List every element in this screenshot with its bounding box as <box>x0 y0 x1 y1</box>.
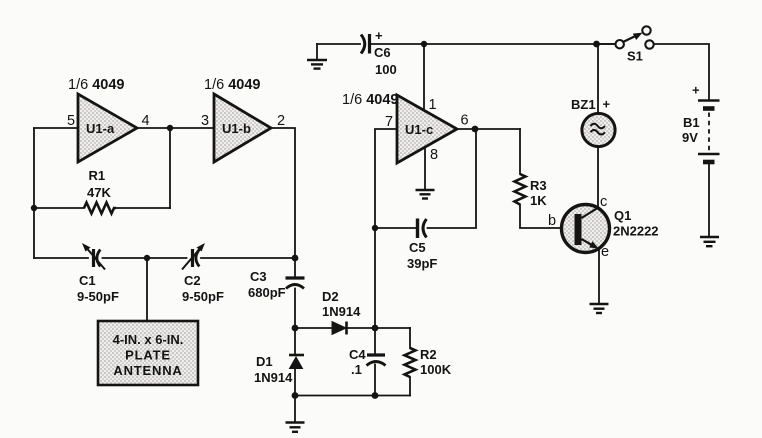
svg-text:C6: C6 <box>374 45 391 60</box>
wire: R2 top lead <box>409 328 411 348</box>
svg-text:1N914: 1N914 <box>254 370 293 385</box>
node: antenna junction <box>144 255 150 261</box>
svg-text:4-IN. x 6-IN.: 4-IN. x 6-IN. <box>113 332 184 347</box>
wire: R1 feedback row <box>34 207 84 209</box>
ground: U1-c pin 8 <box>416 190 435 199</box>
ground: battery negative <box>700 237 719 246</box>
svg-text:1K: 1K <box>530 193 547 208</box>
plate antenna box <box>98 321 198 385</box>
svg-text:39pF: 39pF <box>407 256 437 271</box>
svg-text:C3: C3 <box>250 269 267 284</box>
svg-text:100K: 100K <box>420 362 452 377</box>
resistor R2 <box>405 348 416 377</box>
wire: D1 top lead <box>294 328 296 354</box>
svg-text:U1-c: U1-c <box>405 122 433 137</box>
svg-text:c: c <box>600 194 607 210</box>
wire: U1-a input row <box>34 127 78 129</box>
capacitor C4 <box>367 355 386 366</box>
svg-text:9-50pF: 9-50pF <box>182 289 224 304</box>
svg-text:+: + <box>603 97 611 112</box>
ground: Q1 emitter <box>590 304 609 313</box>
svg-text:1: 1 <box>429 97 437 113</box>
svg-text:100: 100 <box>375 62 397 77</box>
svg-text:2: 2 <box>277 113 285 129</box>
svg-text:B1: B1 <box>683 115 700 130</box>
svg-text:8: 8 <box>430 147 438 163</box>
svg-text:e: e <box>601 244 609 260</box>
svg-text:7: 7 <box>385 114 393 130</box>
ground: top rail left <box>307 60 327 69</box>
svg-text:5: 5 <box>67 113 75 129</box>
svg-text:R3: R3 <box>530 178 547 193</box>
wire: C4 bottom lead <box>374 365 376 396</box>
node: U1-a output junction <box>167 125 173 131</box>
svg-text:3: 3 <box>201 113 209 129</box>
svg-text:Q1: Q1 <box>614 208 631 223</box>
svg-text:C4: C4 <box>349 347 366 362</box>
capacitor C1 (variable) <box>82 243 105 270</box>
wire: top supply rail right of C6 <box>371 43 615 45</box>
capacitor C2 (variable) <box>182 243 205 270</box>
svg-text:+: + <box>692 83 700 98</box>
wire: R3 bottom lead to Q1 base <box>520 205 575 229</box>
wire: top supply rail left of C6 <box>317 43 360 45</box>
wire: C5 row right and up to pin6 <box>428 129 477 228</box>
wire: D1 ground stem <box>294 396 296 423</box>
wire: D2 row <box>295 327 332 329</box>
node: R1 left junction <box>31 205 37 211</box>
wire: C4 top lead <box>374 328 376 354</box>
svg-text:680pF: 680pF <box>248 285 286 300</box>
node: BZ1 rail junction <box>593 41 600 48</box>
node: pin1 rail junction <box>421 41 427 47</box>
svg-text:U1-a: U1-a <box>86 121 115 136</box>
svg-text:D2: D2 <box>322 289 339 304</box>
svg-text:PLATE: PLATE <box>125 348 171 363</box>
diode D1 <box>289 355 304 369</box>
op-amp U1-c inverter triangle <box>397 95 457 163</box>
svg-text:D1: D1 <box>256 354 273 369</box>
wire: U1-c pin1 drop <box>423 44 425 113</box>
svg-text:C1: C1 <box>79 273 96 288</box>
node: C4 bottom junction <box>372 392 379 399</box>
wire: S1 pole lead <box>600 43 616 45</box>
wire: U1-c pin7 lead <box>375 129 397 228</box>
node: pin7/C5 junction <box>372 225 378 231</box>
wire: feedback vertical from output node <box>169 128 171 208</box>
capacitor C3 <box>286 278 305 289</box>
svg-text:1N914: 1N914 <box>322 304 361 319</box>
svg-text:b: b <box>548 213 556 229</box>
capacitor C6 <box>361 34 370 54</box>
svg-text:47K: 47K <box>87 185 111 200</box>
battery B1 <box>698 101 720 163</box>
capacitor C5 <box>418 219 427 239</box>
node: pin6/C5 junction <box>472 126 479 133</box>
wire: bottom row C4/R2 <box>295 395 410 397</box>
node: D2 cathode junction <box>372 325 379 332</box>
wire: U1-c pin8 ground stem <box>424 146 426 189</box>
wire: BZ1 to Q1 collector <box>597 147 599 208</box>
wire: left column <box>33 128 35 258</box>
resistor R1 <box>84 203 116 214</box>
wire: R3 top lead <box>519 129 521 174</box>
wire: C1/C2 row <box>34 257 88 259</box>
wire: D1 bottom lead <box>294 369 296 396</box>
op-amp U1-b inverter triangle <box>214 94 271 162</box>
wire: C3 top lead <box>294 258 296 277</box>
svg-text:C5: C5 <box>409 240 426 255</box>
wire: C3 bottom lead to D2 node <box>294 289 296 329</box>
svg-text:9-50pF: 9-50pF <box>77 289 119 304</box>
wire: Q1 emitter lead to ground <box>598 250 600 303</box>
ground: bottom left under D1 <box>286 423 305 432</box>
svg-text:1/6 4049: 1/6 4049 <box>68 77 124 93</box>
svg-text:2N2222: 2N2222 <box>613 224 659 239</box>
wire: pin6 output row <box>457 128 520 130</box>
svg-text:BZ1: BZ1 <box>571 97 596 112</box>
svg-text:U1-b: U1-b <box>222 121 251 136</box>
wire: C5 row left <box>375 227 416 229</box>
svg-text:1/6 4049: 1/6 4049 <box>342 92 398 108</box>
wire: R2 bottom lead <box>409 377 411 396</box>
svg-text:S1: S1 <box>627 49 643 64</box>
op-amp U1-a inverter triangle <box>78 94 137 162</box>
wire: pin7 vertical down to D2 node <box>374 228 376 328</box>
resistor R3 <box>515 174 526 205</box>
svg-text:R1: R1 <box>89 168 106 183</box>
node: bottom left junction <box>292 392 299 399</box>
diode D2 <box>332 322 347 335</box>
svg-text:9V: 9V <box>682 130 698 145</box>
svg-text:R2: R2 <box>420 347 437 362</box>
wire: antenna drop <box>146 258 148 321</box>
svg-text:+: + <box>375 28 383 43</box>
wire: U1-a output to U1-b input <box>137 127 214 129</box>
wire: battery bottom lead <box>708 165 710 237</box>
node: C3 top junction <box>292 255 299 262</box>
svg-text:ANTENNA: ANTENNA <box>113 363 182 378</box>
wire: BZ1 top lead <box>597 44 599 114</box>
switch S1 <box>616 26 654 48</box>
svg-text:.1: .1 <box>351 362 362 377</box>
svg-text:C2: C2 <box>184 273 201 288</box>
wire: U1-b output drop to C1 row <box>271 128 295 258</box>
svg-text:4: 4 <box>142 113 150 129</box>
buzzer BZ1 <box>582 113 615 146</box>
node: D2 anode junction <box>292 325 299 332</box>
svg-text:1/6 4049: 1/6 4049 <box>204 77 260 93</box>
wire: top rail ground stem <box>316 44 318 59</box>
svg-text:6: 6 <box>461 113 469 129</box>
wire: S1 to battery <box>654 44 709 100</box>
transistor Q1 <box>562 205 610 253</box>
